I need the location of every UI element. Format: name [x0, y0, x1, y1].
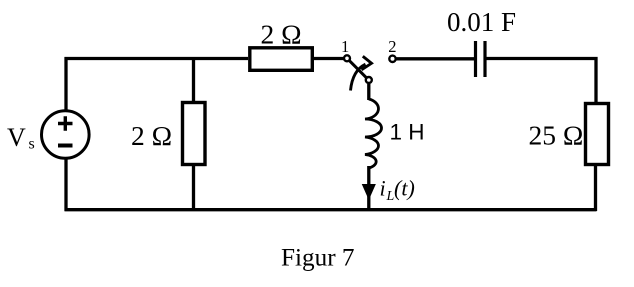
svg-text:s: s [29, 136, 35, 153]
wire series resistor to switch contact 1 [314, 57, 344, 60]
switch arm (pivot to contact 1) [349, 61, 366, 78]
wire top rail left (source to 2-ohm series resistor) [65, 57, 249, 60]
svg-text:V: V [7, 123, 26, 152]
resistor 2 ohm shunt [183, 103, 206, 165]
resistor 2 ohm series [250, 48, 312, 71]
label Vs [7, 123, 35, 153]
svg-text:25 Ω: 25 Ω [529, 120, 584, 151]
wire 25-ohm resistor to bottom rail [594, 166, 597, 211]
svg-text:2: 2 [388, 37, 396, 56]
wire shunt branch bottom (shunt resistor to bottom rail) [192, 166, 195, 211]
wire bottom rail [65, 208, 597, 211]
wire switch contact 2 to capacitor [396, 57, 474, 60]
switch contact 1 [344, 55, 350, 61]
svg-text:2 Ω: 2 Ω [261, 18, 302, 49]
resistor 25 ohm [586, 104, 609, 165]
svg-text:(t): (t) [394, 176, 415, 201]
svg-text:0.01 F: 0.01 F [447, 7, 516, 37]
wire left vertical bottom (source - to bottom rail) [64, 159, 67, 211]
wire shunt branch top (top rail to shunt resistor) [192, 57, 195, 101]
svg-text:1 H: 1 H [390, 119, 425, 144]
wire capacitor to top-right corner and down to 25-ohm resistor [487, 59, 597, 103]
label iL(t) [380, 176, 415, 205]
voltage source Vs [42, 111, 90, 159]
switch pivot [366, 77, 372, 83]
capacitor 0.01 F [476, 41, 486, 77]
wire left vertical top (top rail to source +) [64, 57, 67, 110]
arrow iL(t) current [363, 185, 376, 199]
wire switch pivot down to inductor [367, 84, 370, 100]
inductor L 1H [365, 99, 382, 168]
svg-text:2 Ω: 2 Ω [131, 120, 172, 151]
wire inductor to bottom rail [367, 166, 370, 209]
svg-text:Figur 7: Figur 7 [281, 245, 354, 272]
switch motion arrow [351, 56, 372, 90]
switch contact 2 [389, 56, 395, 62]
svg-text:1: 1 [341, 37, 349, 56]
svg-text:i: i [380, 176, 386, 201]
